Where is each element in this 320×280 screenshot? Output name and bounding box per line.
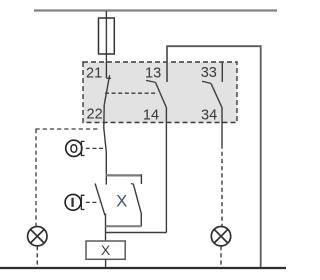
svg-text:13: 13 [145, 66, 161, 82]
svg-text:21: 21 [86, 65, 102, 81]
svg-text:14: 14 [143, 107, 159, 123]
svg-text:X: X [101, 242, 111, 258]
svg-text:O: O [70, 141, 78, 156]
svg-text:X: X [116, 193, 127, 211]
svg-text:34: 34 [201, 107, 217, 123]
svg-text:33: 33 [201, 65, 217, 81]
svg-text:22: 22 [87, 106, 103, 122]
